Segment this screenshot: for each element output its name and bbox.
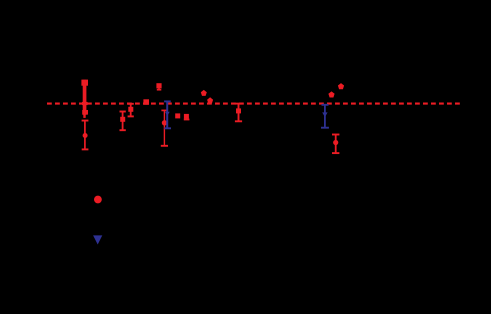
point G square [175, 113, 180, 118]
point B square with error bar [120, 112, 126, 131]
point J pentagon on line [207, 97, 213, 103]
point D square on line [143, 99, 149, 105]
point L pentagon [328, 91, 334, 97]
dashed reference line [47, 103, 460, 105]
blue point Q triangle with error bar [321, 105, 329, 128]
legend blue triangle marker [93, 235, 102, 244]
cluster A error bar column [81, 80, 88, 122]
point C square with error bar [128, 104, 134, 117]
cluster A lower point (circle) [82, 121, 89, 150]
point M pentagon [338, 83, 344, 89]
point F circle with long thin error bar [161, 110, 168, 145]
blue point P triangle with error bar [164, 101, 171, 128]
point K square with error bar [235, 104, 242, 122]
point E square with short stem [157, 85, 162, 90]
point I pentagon [201, 90, 207, 96]
point H square with bottom cap [184, 117, 190, 120]
point N circle with error bar [332, 135, 339, 154]
legend red circle marker [94, 196, 102, 204]
